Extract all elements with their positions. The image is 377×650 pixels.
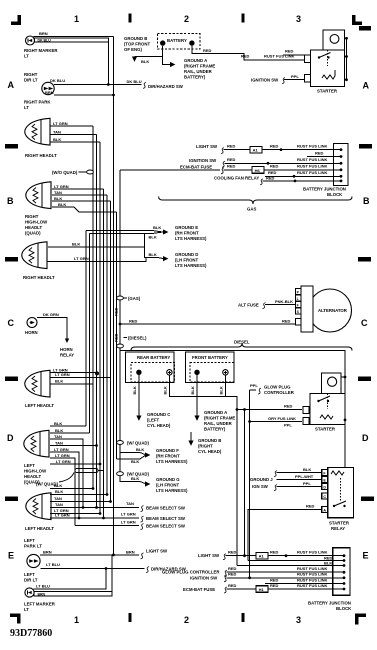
wire v2 [89,234,91,434]
svg-text:BLK: BLK [141,59,149,64]
wire LT GRN quad 3 [50,463,100,465]
svg-text:DIESEL: DIESEL [234,340,250,345]
svg-text:GROUND F: GROUND F [156,448,179,453]
svg-text:H6: H6 [255,168,261,173]
wire RED battery to starter [192,46,305,60]
svg-text:C: C [8,318,15,328]
pin P [295,289,301,295]
wire positive feed to starter circuits [169,396,237,565]
svg-text:BLK: BLK [149,235,157,240]
wire BLK quad 2 [50,432,90,434]
svg-text:BATTERY: BATTERY [167,38,187,43]
pin S [295,308,301,314]
wire GRY FUS LINK [250,421,302,423]
svg-text:LT: LT [24,607,29,612]
wire LT BLU left dir to dir/hazard sw [40,568,144,570]
svg-text:RIGHT: RIGHT [24,72,38,77]
svg-text:L: L [297,297,299,301]
wire DK BLU marker (highlighted) [35,38,109,42]
pin L [295,295,301,301]
svg-text:B: B [363,196,370,206]
svg-text:GROUND A: GROUND A [204,410,227,415]
svg-text:DK BLU: DK BLU [127,79,142,84]
svg-text:BLK: BLK [149,252,157,257]
relay pins [322,470,328,476]
svg-text:IGN SW: IGN SW [252,484,269,489]
svg-text:HIGH-LOW: HIGH-LOW [25,220,48,225]
row 3 blk [237,565,344,567]
svg-text:LT BLU: LT BLU [46,562,60,567]
svg-text:LEFT: LEFT [24,463,35,468]
svg-text:BLK: BLK [54,483,62,488]
svg-text:RUST FUS LINK: RUST FUS LINK [297,572,328,577]
svg-text:RELAY: RELAY [60,353,74,358]
svg-text:LT GRN: LT GRN [54,447,69,452]
svg-text:BEAM SELECT SW: BEAM SELECT SW [146,524,186,529]
svg-text:GROUND G: GROUND G [156,477,180,482]
svg-text:BLK: BLK [131,459,139,464]
row 5 red stub [265,175,341,177]
svg-text:RUST FUS LINK: RUST FUS LINK [297,157,328,162]
wire DK GRN [37,318,67,339]
switch DIR/HAZARD SW [143,82,146,88]
wire v10 RED main battery feed [119,170,121,482]
wire BLK front battery to ground A [196,375,198,416]
starter S2 (diesel) [322,373,342,393]
right headlamp upper [25,118,50,145]
connector (W/ QUAD) on v10 lower [117,472,124,476]
svg-text:(RH FRONT: (RH FRONT [156,454,180,459]
svg-text:RED: RED [203,48,212,53]
svg-text:BLK: BLK [132,386,137,394]
ground A (right frame rail, under battery) [163,54,170,65]
svg-text:HORN: HORN [60,347,73,352]
svg-text:(QUAD): (QUAD) [25,231,41,236]
wire LT GRN lower [50,513,100,515]
wire PPL down [249,390,251,578]
svg-text:A1: A1 [253,148,259,153]
wire BLK to ground E [86,231,163,233]
svg-text:LEFT: LEFT [24,538,35,543]
svg-text:E: E [8,551,14,561]
svg-text:GROUND J: GROUND J [250,477,273,482]
battery B1 [157,33,200,49]
pin F [295,302,301,308]
svg-text:(RIGHT FRAME: (RIGHT FRAME [184,64,215,69]
svg-text:ALT FUSE: ALT FUSE [238,302,259,307]
svg-text:F: F [297,303,299,307]
wire BLK [50,383,93,385]
svg-text:BLK: BLK [55,489,63,494]
left headlamp mid [25,370,50,397]
corner mark top-right [352,15,356,25]
svg-text:RED: RED [114,333,119,342]
bottom grid ticks [129,613,132,622]
svg-text:RED: RED [228,550,237,555]
svg-text:PPL: PPL [250,383,258,388]
svg-text:RAIL, UNDER: RAIL, UNDER [184,69,213,74]
svg-text:BATTERY): BATTERY) [184,75,206,80]
svg-text:ECM-BAT FUSE: ECM-BAT FUSE [180,164,212,169]
svg-text:RED: RED [270,550,279,555]
svg-text:TAN: TAN [55,440,63,445]
svg-text:BLK: BLK [218,386,223,394]
svg-text:LT: LT [24,54,29,59]
svg-text:(LH FRONT: (LH FRONT [156,483,180,488]
ground E [163,229,168,234]
svg-text:LTS HARNESS): LTS HARNESS) [156,488,188,493]
svg-text:A: A [8,80,15,90]
svg-text:C: C [361,318,368,328]
connector (W/ QUAD) on v10 [117,441,124,445]
side ticks right [359,26,371,31]
svg-text:BLK: BLK [58,202,66,207]
svg-text:1: 1 [74,615,79,625]
wire LT GRN lower 2 to beam select [50,517,139,519]
node dir DK BLU junction [107,83,110,86]
svg-text:RED: RED [282,319,291,324]
svg-text:B: B [7,196,14,206]
svg-text:TAN: TAN [54,434,62,439]
svg-text:1: 1 [74,14,79,24]
svg-text:LT GRN: LT GRN [55,453,70,458]
svg-text:LT GRN: LT GRN [121,519,136,524]
svg-text:RUST FUS LINK: RUST FUS LINK [297,583,328,588]
wire LT GRN beam select 2 [75,525,139,527]
svg-text:RUST FUS LINK: RUST FUS LINK [297,143,328,148]
svg-text:D: D [362,433,369,443]
wire LT GRN quad [50,452,79,518]
svg-text:3: 3 [296,14,301,24]
svg-text:RAIL, UNDER: RAIL, UNDER [204,421,233,426]
svg-text:GROUND E: GROUND E [175,225,198,230]
svg-text:(DIESEL): (DIESEL) [128,336,147,341]
svg-text:C: C [323,495,326,499]
svg-text:GLOW PLUG: GLOW PLUG [264,385,291,390]
svg-text:LT: LT [24,105,29,110]
wire v4 [96,135,98,508]
svg-text:BLK: BLK [324,561,332,566]
wire v8 [110,201,112,502]
wire BRN park [54,94,114,96]
svg-text:RED: RED [228,572,237,577]
row 2 red [248,560,344,562]
fuse box A1 lower [256,552,268,559]
svg-text:LTS HARNESS): LTS HARNESS) [175,263,207,268]
wire BLK lower 2 [50,494,107,496]
svg-text:TAN: TAN [53,129,61,134]
horn H1 [27,318,37,328]
svg-text:BLK: BLK [303,467,311,472]
svg-text:ECM-BAT FUSE: ECM-BAT FUSE [183,587,215,592]
svg-text:LT GRN: LT GRN [56,459,71,464]
left headlamp lower [26,493,51,520]
alternator G1 [309,289,352,332]
svg-text:RED: RED [241,54,250,59]
svg-text:LT GRN: LT GRN [55,372,70,377]
wire DK BLU dir to dir/hazard sw [54,84,142,86]
svg-text:A: A [363,81,370,91]
svg-text:BLK: BLK [72,241,80,246]
wire TAN quad 2 [50,445,97,447]
wire v5 [99,142,101,514]
wire RED relay A [248,510,322,561]
svg-text:BRN: BRN [39,31,48,36]
wire LT BLU marker [34,569,107,590]
svg-text:BLK: BLK [153,225,161,230]
svg-text:LIGHT SW: LIGHT SW [198,553,220,558]
switch ignition sw to starter [282,78,285,84]
svg-text:LT GRN: LT GRN [121,511,136,516]
switch light sw on park BRN row [141,553,144,559]
wire LT GRN 2 [50,377,111,379]
wire BLK to ground D [145,234,163,259]
junction block [334,144,349,186]
svg-text:BEAM SELECT SW: BEAM SELECT SW [146,506,186,511]
svg-text:RED: RED [270,583,279,588]
top grid ticks [129,14,132,23]
svg-text:CYL HEAD): CYL HEAD) [198,449,222,454]
svg-text:CONTROLLER: CONTROLLER [264,390,295,395]
svg-text:RED: RED [227,157,236,162]
pin terminal lower [305,75,311,83]
svg-text:HEADLT: HEADLT [25,225,42,230]
svg-text:TAN: TAN [55,502,63,507]
svg-text:GROUND A: GROUND A [184,58,207,63]
junction block lower [333,548,350,596]
wire BLK to ground G [120,476,145,484]
wire v7 [106,195,108,495]
svg-text:HORN: HORN [25,330,38,335]
svg-text:RED: RED [285,49,294,54]
svg-text:LT GRN: LT GRN [55,513,70,518]
svg-text:CYL HEAD): CYL HEAD) [147,423,171,428]
svg-text:STARTER: STARTER [329,521,350,526]
wire LT GRN [50,372,97,374]
wire BLK quad [50,425,86,427]
svg-text:RED: RED [114,307,119,316]
svg-text:OF ENG): OF ENG) [124,47,142,52]
svg-text:RUST FUS LINK: RUST FUS LINK [297,170,328,175]
right headlamp lower [22,242,47,269]
svg-text:BRN: BRN [126,550,135,555]
svg-text:(LEFT: (LEFT [147,418,160,423]
wire BLK lower [50,488,93,490]
svg-text:H1: H1 [259,587,265,592]
svg-text:FRONT BATTERY: FRONT BATTERY [192,355,228,360]
wire TAN [50,134,97,136]
svg-text:BLK: BLK [131,476,139,481]
svg-text:BLOCK: BLOCK [327,192,343,197]
svg-text:RIGHT HEADLT: RIGHT HEADLT [25,153,57,158]
svg-text:RED: RED [315,150,324,155]
svg-text:GRY FUS LINK: GRY FUS LINK [268,416,296,421]
svg-text:RUST FUS LINK: RUST FUS LINK [297,550,328,555]
svg-text:RED: RED [270,143,279,148]
ground F [145,452,150,457]
svg-text:HIGH-LOW: HIGH-LOW [24,469,47,474]
svg-text:HEADLT: HEADLT [24,474,41,479]
row 6 red stub [265,583,344,585]
svg-text:RIGHT HEADLT: RIGHT HEADLT [23,275,55,280]
svg-text:2: 2 [184,615,189,625]
wire BRN left park [40,554,139,556]
svg-text:RIGHT PARK: RIGHT PARK [24,100,51,105]
starter relay K1 [328,468,354,518]
svg-text:IGNITION SW: IGNITION SW [189,158,217,163]
svg-text:GROUND D: GROUND D [175,252,198,257]
svg-text:RED: RED [266,175,275,180]
svg-text:RED: RED [228,583,237,588]
rear battery B2 [126,352,175,383]
brace gas [159,197,352,205]
wire RED down [244,410,246,556]
svg-text:BATTERY JUNCTION: BATTERY JUNCTION [303,187,346,192]
svg-text:RELAY: RELAY [331,526,345,531]
svg-text:LT BLU: LT BLU [36,584,50,589]
wire BLK rear battery to ground C [138,375,140,416]
row 2 red stub [307,156,341,158]
wire BLK to ground E lower [90,232,164,234]
svg-text:DK GRN: DK GRN [43,312,59,317]
svg-text:PARK LT: PARK LT [24,544,42,549]
svg-text:BRN: BRN [45,90,54,95]
left dir / park light [27,554,40,567]
svg-text:GAS: GAS [247,207,256,212]
svg-text:BLK: BLK [53,137,61,142]
svg-text:D: D [7,433,14,443]
fuse box A1 [250,146,262,153]
svg-text:(W/O QUAD): (W/O QUAD) [52,170,78,175]
svg-text:(GAS): (GAS) [128,296,141,301]
wire starter right side [344,38,346,79]
svg-text:LT GRN: LT GRN [74,256,89,261]
fuse box H1 [256,586,268,593]
svg-text:RUST FUS LINK: RUST FUS LINK [297,577,328,582]
wire v3 [92,126,94,489]
pin BAT [295,319,301,326]
wire LT GRN quad 2 [50,458,75,526]
wire TAN quad [52,194,107,196]
svg-text:TAN: TAN [126,501,134,506]
svg-text:LIGHT SW: LIGHT SW [146,549,168,554]
wire RED to alternator [120,323,295,325]
svg-text:BLK: BLK [55,379,63,384]
wire to ECM-BAT fuse row [120,169,220,171]
svg-text:(RH FRONT: (RH FRONT [175,231,199,236]
wire BLK quad lower [52,207,117,212]
svg-text:(RIGHT FRAME: (RIGHT FRAME [204,416,235,421]
corner mark top-left [11,22,21,26]
wire TAN quad [50,439,83,508]
svg-text:LEFT HEADLT: LEFT HEADLT [25,526,54,531]
svg-text:LEFT HEADLT: LEFT HEADLT [25,403,54,408]
svg-text:A1: A1 [259,554,265,559]
svg-text:RED: RED [227,143,236,148]
wire v9 BRN right park to left park [113,37,115,555]
svg-text:GROUND B: GROUND B [198,438,221,443]
wire BLK quad [52,200,111,202]
wire LT GRN [50,125,93,127]
svg-text:(RIGHT: (RIGHT [198,444,213,449]
connector (GAS) on RED feed [117,296,124,300]
svg-text:BLK: BLK [54,421,62,426]
svg-text:STARTER: STARTER [317,89,338,94]
svg-text:BLK: BLK [162,386,167,394]
svg-text:LEFT: LEFT [24,572,35,577]
svg-text:BLK: BLK [136,447,144,452]
svg-text:RED: RED [270,577,279,582]
svg-text:2: 2 [184,14,189,24]
svg-text:(TOP FRONT: (TOP FRONT [124,42,150,47]
svg-text:A: A [323,508,326,512]
svg-text:BLK: BLK [190,386,195,394]
svg-text:ALTERNATOR: ALTERNATOR [318,308,348,313]
wire v11 [116,212,118,459]
right high-low headlamp (quad) [26,182,51,209]
left marker light [25,588,34,597]
svg-text:BLK: BLK [55,428,63,433]
svg-text:RED: RED [129,319,138,324]
svg-text:DK BLU: DK BLU [38,39,52,43]
ground G [145,481,150,486]
corner mark bottom-right [355,614,366,618]
svg-text:IGNITION SW: IGNITION SW [190,575,218,580]
wire LT GRN quad [52,188,104,190]
wire BLK [50,141,100,143]
svg-text:RIGHT: RIGHT [25,214,39,219]
right marker light [26,36,35,45]
svg-text:GROUND C: GROUND C [147,412,170,417]
wire RED to diesel starter [237,409,302,411]
wire RED positive bus [120,351,345,468]
wire TAN lower [50,501,111,503]
svg-text:TAN: TAN [54,190,62,195]
svg-text:DK BLU: DK BLU [50,78,65,83]
svg-text:RUST FUS LINK: RUST FUS LINK [297,164,328,169]
svg-text:(W/ QUAD): (W/ QUAD) [127,441,150,446]
svg-text:BATTERY JUNCTION: BATTERY JUNCTION [308,601,351,606]
svg-text:BLK: BLK [54,196,62,201]
side ticks left [5,144,18,149]
svg-text:GROUND B: GROUND B [124,36,147,41]
wire RED starter stub [283,54,305,56]
wire LT GRN lower headlamp [47,258,146,262]
svg-text:DIR LT: DIR LT [24,78,38,83]
svg-text:(LH FRONT: (LH FRONT [175,258,199,263]
svg-text:RED: RED [270,164,279,169]
svg-text:LT GRN: LT GRN [54,184,69,189]
svg-text:PPL-WHT: PPL-WHT [295,474,314,479]
svg-text:GLOW PLUG CONTROLLER: GLOW PLUG CONTROLLER [162,569,220,574]
pin terminal upper [305,55,311,63]
svg-text:RED: RED [228,566,237,571]
svg-text:LEFT MARKER: LEFT MARKER [24,602,56,607]
wire PPL-WHT [277,479,322,481]
fuse box H6 [252,167,264,174]
svg-text:RUST FUS LINK: RUST FUS LINK [297,566,328,571]
wire starter to relay [344,420,346,468]
wire v1 [85,231,87,427]
svg-text:PPL: PPL [303,481,311,486]
svg-text:BATTERY): BATTERY) [204,427,226,432]
svg-text:LIGHT SW: LIGHT SW [196,144,218,149]
svg-text:D: D [323,485,326,489]
svg-text:RED: RED [227,164,236,169]
ground D [163,256,168,261]
wire rear battery positive [169,375,225,396]
svg-text:TAN: TAN [54,496,62,501]
